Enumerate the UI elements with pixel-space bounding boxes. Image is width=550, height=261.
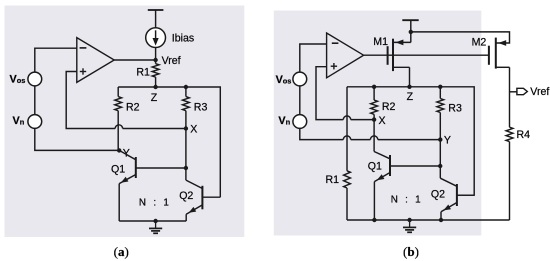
node Z (a): [151, 85, 158, 104]
voltage source Vn (b): [293, 115, 307, 129]
wire Z rail (a): [118, 87, 220, 197]
svg-text:R2: R2: [126, 102, 140, 114]
ground (a): [149, 219, 162, 234]
resistor R4: [506, 92, 513, 221]
op-amp A1 (b): [327, 33, 364, 78]
label Vn (b): [278, 115, 290, 127]
label R3 (a): [194, 102, 208, 114]
node X (a): [184, 123, 198, 135]
transistor Q2 (b): [441, 184, 474, 220]
label R2 (a): [126, 102, 140, 114]
resistor R1 (a): [152, 60, 159, 87]
node R2-top (b): [372, 85, 376, 89]
wire plus-input to node X (b): [316, 67, 374, 120]
wire Vn to node Y (b): [300, 128, 441, 139]
resistor R3 (a): [183, 87, 190, 168]
svg-text:N : 1: N : 1: [139, 197, 170, 208]
svg-text:N : 1: N : 1: [391, 195, 422, 206]
svg-text:Y: Y: [444, 135, 451, 147]
transistor Q1 (b): [374, 155, 440, 220]
svg-text:Q2: Q2: [179, 190, 193, 202]
voltage source Vos (b): [293, 72, 307, 86]
svg-text:R1: R1: [326, 174, 340, 186]
node R3-top junction (a): [184, 85, 188, 89]
transistor M1: [388, 32, 411, 87]
wire op-amp output to gates: [364, 54, 489, 56]
label Vn (a): [13, 115, 25, 127]
svg-text:X: X: [379, 115, 386, 127]
wire op-amp output to Vref node: [114, 59, 155, 61]
svg-text:Q1: Q1: [368, 160, 382, 172]
node X (b): [372, 115, 386, 127]
label N : 1 (b): [391, 195, 422, 206]
label R3 (b): [448, 103, 462, 115]
svg-text:Z: Z: [151, 92, 158, 104]
wire Vos to Vn (a): [34, 86, 36, 115]
label R4: [517, 129, 531, 141]
wire minus-input to Vos (a): [35, 48, 77, 72]
node R3-top (b): [438, 85, 442, 89]
svg-text:Vref: Vref: [162, 55, 181, 67]
label Q2 (b): [431, 189, 445, 201]
node Z (b): [407, 85, 414, 103]
vdd supply bar (a): [148, 10, 164, 28]
transistor M2: [489, 38, 510, 92]
wire Y to Q2 collector: [440, 140, 457, 187]
ground rail (a): [119, 220, 186, 222]
resistor R2 (a): [115, 87, 122, 150]
resistor R2 (b): [371, 87, 378, 120]
panel (b) background: [274, 11, 482, 236]
resistor R1 (b): [344, 87, 351, 220]
svg-text:Q2: Q2: [431, 189, 445, 201]
voltage source Vos (a): [28, 72, 42, 86]
svg-text:R2: R2: [382, 101, 396, 113]
svg-text:(a): (a): [114, 244, 129, 259]
caption (b): [403, 244, 419, 259]
svg-text:Q1: Q1: [111, 163, 125, 175]
label Q1 (b): [368, 160, 382, 172]
label R1 (b): [326, 174, 340, 186]
svg-text:Z: Z: [407, 91, 414, 103]
port Vref (b): [517, 86, 549, 98]
svg-text:Ibias: Ibias: [172, 33, 194, 45]
voltage source Vn (a): [28, 115, 42, 129]
vdd supply bar (b): [402, 20, 418, 32]
label M2: [472, 37, 487, 49]
wire X to Q1 collector: [374, 120, 390, 159]
transistor Q2 (a): [186, 168, 220, 221]
wire vdd to M2 source: [411, 32, 510, 46]
svg-text:(b): (b): [403, 244, 419, 259]
node Vref (b): [510, 91, 517, 93]
svg-text:Vos: Vos: [276, 74, 292, 86]
transistor Q1 (a): [119, 150, 186, 221]
ground (b): [403, 218, 416, 233]
wire Vos to Vn (b): [299, 86, 301, 115]
svg-text:R1: R1: [136, 66, 150, 78]
panel (a) background: [5, 6, 245, 238]
label Ibias: [172, 33, 194, 45]
wire minus-input to Vos (b): [300, 44, 327, 72]
node Y (a): [117, 147, 130, 159]
op-amp A1: [77, 38, 114, 83]
svg-text:R4: R4: [517, 129, 531, 141]
svg-text:Vn: Vn: [13, 115, 25, 127]
node Q2-emitter rail (b): [439, 218, 443, 222]
node Q1-emitter rail (b): [372, 218, 376, 222]
svg-text:R3: R3: [448, 103, 462, 115]
label Vos (a): [10, 74, 26, 86]
wire plus-input to node X (a): [66, 72, 186, 129]
node Q1-base junction (b): [438, 164, 442, 168]
wire Vn to node Y (a): [35, 128, 119, 150]
resistor R3 (b): [437, 87, 444, 140]
label Vos (b): [276, 74, 292, 86]
label Q1 (a): [111, 163, 125, 175]
svg-text:M1: M1: [373, 36, 388, 48]
label Q2 (a): [179, 190, 193, 202]
svg-text:Vref: Vref: [530, 86, 549, 98]
label R2 (b): [382, 101, 396, 113]
node Q1-base junction (a): [184, 166, 188, 170]
svg-text:M2: M2: [472, 37, 487, 49]
ground rail (b): [347, 219, 510, 221]
node Y (b): [438, 135, 451, 147]
svg-text:Vn: Vn: [278, 115, 290, 127]
label R1 (a): [136, 66, 150, 78]
wire Z rail (b): [347, 87, 474, 195]
svg-text:X: X: [190, 123, 197, 135]
label M1: [373, 36, 388, 48]
svg-text:Vos: Vos: [10, 74, 26, 86]
current source Ibias: [146, 28, 166, 48]
svg-text:R3: R3: [194, 102, 208, 114]
wire Ibias to Vref node: [155, 48, 157, 61]
caption (a): [114, 244, 129, 259]
label N : 1 (a): [139, 197, 170, 208]
node Vref (a): [153, 55, 180, 67]
node vdd (b): [409, 30, 413, 34]
